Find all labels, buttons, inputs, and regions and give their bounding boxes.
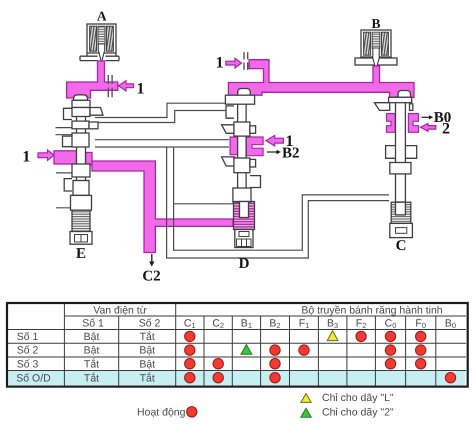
svg-text:Chỉ cho dãy "2": Chỉ cho dãy "2" [322, 407, 394, 419]
svg-text:Bật: Bật [84, 331, 100, 343]
pink port: line-1 inlet into valve E [54, 151, 77, 164]
orifice near valve D inlet [244, 52, 248, 70]
valve E [63, 95, 104, 244]
svg-text:Số O/D: Số O/D [16, 372, 51, 384]
svg-text:Số 3: Số 3 [17, 358, 39, 370]
svg-text:C2: C2 [142, 269, 160, 285]
pink fill of valve D spring chamber [234, 202, 255, 230]
valve D [222, 89, 261, 248]
svg-text:Chỉ cho dãy "L": Chỉ cho dãy "L" [322, 392, 394, 404]
orifice near solenoid A [108, 75, 112, 97]
pink port B2 on valve D [230, 137, 238, 155]
valve C [374, 91, 416, 238]
svg-text:1: 1 [216, 55, 224, 72]
svg-text:Số 2: Số 2 [17, 345, 39, 357]
arrow 1 (right, inlet to valve E) [38, 150, 54, 160]
svg-text:Tắt: Tắt [84, 357, 99, 370]
pink port B0 on valve C [387, 114, 396, 133]
pink channel: valve D top band, orifice branch, solenoid B drop, to valve C top [228, 60, 414, 98]
table: outer border [7, 303, 468, 387]
table: green triangle (2 range) at B1 row2 [241, 345, 252, 355]
svg-text:B2: B2 [282, 146, 300, 162]
svg-text:A: A [97, 9, 107, 24]
wire: channel valve E upper port to valve D (inner wall) [95, 111, 226, 123]
svg-text:Van điện từ: Van điện từ [93, 305, 147, 317]
svg-text:Bộ truyền bánh răng hành tinh: Bộ truyền bánh răng hành tinh [301, 305, 442, 317]
solenoid A [80, 24, 119, 63]
wire: channel valve E upper port to valve D (outer wall) [95, 103, 226, 117]
legend: yellow triangle L [301, 394, 311, 403]
arrow 1 (left, at port B2) [266, 135, 283, 146]
table: yellow triangle (L range) at B3 row1 [327, 331, 338, 341]
label B0 with arrow [422, 116, 429, 118]
svg-text:B: B [371, 16, 380, 31]
wire: channel valve E mid port to valve D (upper wall) [95, 139, 229, 141]
wire: branch into valve D spring chamber [174, 203, 233, 205]
wire: channel valve E mid port to valve D (lower wall) [95, 146, 229, 148]
table: grid lines [8, 304, 466, 386]
svg-text:Tắt: Tắt [84, 371, 99, 384]
label C2 with down arrow [151, 254, 153, 262]
arrow 1 (left, at orifice near A) [118, 81, 133, 91]
svg-text:B0: B0 [434, 110, 452, 126]
svg-text:Bật: Bật [84, 345, 100, 357]
table: row labels and on/off values [16, 330, 155, 384]
label B2 with arrow [267, 151, 277, 153]
table: header texts [82, 305, 456, 331]
svg-text:Tắt: Tắt [140, 371, 155, 384]
svg-text:Bật: Bật [139, 358, 155, 370]
svg-text:Số 1: Số 1 [82, 318, 104, 330]
legend: green triangle 2 [301, 408, 311, 417]
svg-text:Hoạt động: Hoạt động [137, 406, 186, 418]
wire: channel down around valve D bottom to valve C (outer wall) [167, 147, 389, 258]
pink channel: valve E to C2 and valve D spring [92, 161, 233, 253]
arrow 1 (right, at orifice near valve D) [226, 58, 242, 68]
svg-text:C: C [396, 238, 407, 254]
table: red operation dots [185, 331, 456, 383]
svg-text:Số 1: Số 1 [17, 331, 39, 343]
svg-text:E: E [76, 246, 86, 262]
wire: channel down around valve D bottom to valve C (inner wall) [174, 147, 389, 250]
svg-text:D: D [239, 256, 250, 272]
svg-text:Số 2: Số 2 [139, 318, 161, 330]
wire: valve E left stub lines [56, 128, 73, 208]
svg-text:Bật: Bật [139, 345, 155, 357]
svg-text:1: 1 [137, 81, 145, 98]
solenoid B [355, 30, 397, 70]
svg-text:Tắt: Tắt [140, 330, 155, 343]
arrow 2 (left, at port B0) [421, 124, 436, 132]
pink channel: solenoid A to valve E top and orifice [67, 61, 118, 98]
svg-text:1: 1 [22, 149, 30, 166]
table: O/D row highlight [8, 371, 465, 386]
